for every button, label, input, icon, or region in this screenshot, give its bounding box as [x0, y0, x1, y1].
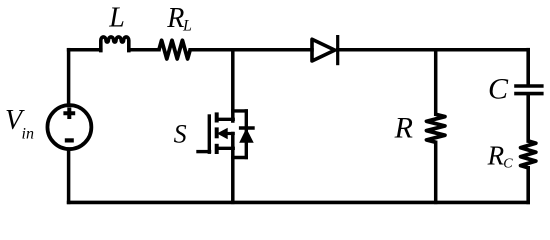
svg-text:C: C	[488, 73, 509, 106]
wire top rail left segment	[69, 48, 101, 52]
MOSFET body arrow line	[225, 132, 233, 135]
diode D triangle	[312, 39, 335, 61]
svg-text:in: in	[22, 125, 34, 142]
diode D cathode bar	[336, 35, 339, 65]
svg-text:R: R	[487, 141, 505, 171]
wire between L and RL	[129, 48, 159, 52]
MOSFET gate bar	[208, 114, 211, 154]
Vin plus sign	[63, 107, 75, 119]
MOSFET source bar	[217, 147, 233, 150]
capacitor C top lead	[526, 50, 530, 85]
MOSFET drain bar	[217, 118, 233, 121]
capacitor C top plate	[514, 84, 543, 88]
MOSFET channel bottom dash	[215, 144, 219, 154]
svg-text:R: R	[166, 3, 184, 34]
body diode triangle	[240, 129, 253, 142]
MOSFET channel middle dash	[215, 127, 219, 138]
svg-text:C: C	[503, 157, 513, 172]
Vin minus sign	[65, 138, 74, 142]
bottom rail	[69, 201, 529, 205]
svg-text:R: R	[394, 112, 413, 145]
resistor R zigzag	[427, 114, 445, 142]
inductor L	[101, 37, 129, 51]
left vertical wire top	[67, 50, 71, 104]
body diode cathode bar	[239, 126, 255, 129]
wire diode to right corner	[338, 48, 529, 52]
body diode top stub	[233, 109, 247, 112]
resistor R branch top lead	[434, 50, 438, 115]
body diode bottom stub	[233, 156, 247, 159]
wire RL to diode	[190, 48, 312, 52]
MOSFET gate lead	[198, 150, 210, 153]
resistor RC bottom lead	[526, 168, 530, 203]
svg-text:L: L	[108, 2, 125, 33]
MOSFET source vertical wire	[231, 134, 235, 203]
left vertical wire bottom	[67, 150, 71, 202]
MOSFET drain vertical wire	[231, 50, 235, 121]
voltage source Vin circle	[47, 105, 91, 149]
capacitor C bottom lead	[526, 95, 530, 141]
resistor R bottom lead	[434, 142, 438, 202]
MOSFET body arrow head	[218, 129, 227, 139]
resistor RC zigzag	[521, 141, 536, 168]
MOSFET channel top dash	[215, 112, 219, 122]
svg-text:S: S	[174, 119, 187, 148]
capacitor C bottom plate	[514, 92, 543, 96]
svg-text:L: L	[182, 18, 192, 35]
body diode vertical	[245, 111, 248, 158]
resistor RL zigzag	[159, 40, 190, 59]
